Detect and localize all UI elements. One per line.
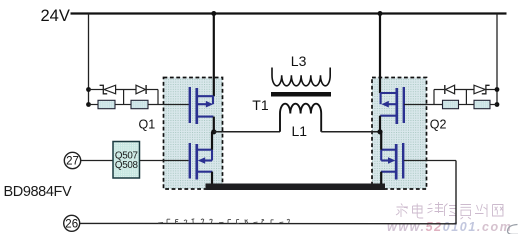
junction dot right top [495,87,500,92]
resistor right 2 [474,100,490,108]
wire Q1 drain from rail [213,14,215,97]
watermark char 4 [445,204,457,217]
wire Q1 lower drain to mid node [211,132,213,150]
wire [115,104,131,106]
wire left drop [88,14,90,105]
svg-text:L3: L3 [291,53,307,69]
wire right top branch [434,89,444,91]
junction dot rail Q1 [211,11,216,16]
transistor Q1 upper MOSFET [190,87,214,124]
diode left (cathode bar) [145,85,147,94]
svg-text:24V: 24V [41,7,70,25]
buffer Q507/Q508 box [113,142,140,179]
inductor L3 winding [272,68,330,86]
junction dot rail Q2 [378,11,383,16]
wire Q2 source to mid node [379,116,381,132]
watermark char 2 [413,204,424,219]
junction dot left bottom [86,102,91,107]
wire mid vertical [123,90,125,105]
diode left (triangle) [136,85,145,94]
transistor Q1 lower MOSFET arrow [198,157,205,164]
wire left bottom branch [89,104,99,106]
zener diode left (cathode bar) [100,85,108,94]
wire [455,89,474,91]
junction dot Q1 mid node [211,129,216,134]
svg-text:27: 27 [66,156,79,168]
wire [490,104,497,106]
resistor right 1 [443,100,459,108]
junction dot right bottom [495,102,500,107]
page curl mark [508,225,518,235]
wire right vertical [157,90,159,105]
diode right (cathode bar) [444,85,446,94]
wire pin 27 to Q507 [81,160,113,162]
wire mid node to L1 left [214,131,280,133]
transistor Q1 lower MOSFET [190,143,213,180]
svg-text:T1: T1 [252,97,269,113]
zener diode left (triangle) [104,85,115,94]
wire Q1 lower source to bus [211,172,213,184]
wire Q2 lower drain to mid node [380,132,382,150]
svg-text:L1: L1 [292,123,308,139]
wire gate Q1 top [148,104,189,106]
svg-text:26: 26 [65,218,78,230]
watermark char 7 [493,205,504,217]
svg-text:Q508: Q508 [115,160,139,171]
resistor left 1 [98,100,115,108]
Q2 dashed box [372,78,427,190]
transformer T1 core bar [271,92,331,97]
wire [146,89,158,91]
24V rail [71,12,507,14]
transistor Q2 lower MOSFET arrow [388,157,395,164]
wire right drop [496,14,498,105]
wire pin 26 to Q2 lower gate (horizontal) [80,222,456,224]
zener diode right (triangle) [474,85,485,94]
wire Q2 lower source to bus [380,172,382,184]
Q1 dashed box [164,78,223,190]
transistor Q2 upper MOSFET [380,87,404,124]
junction dot Q2 mid node [377,129,382,134]
svg-text:www.520101.com: www.520101.com [387,220,512,234]
pin 26 circle [64,215,80,231]
watermark char 3 [428,202,444,213]
watermark char 6 [475,204,487,217]
resistor left 2 [131,100,148,108]
wire Q1 source to mid node [213,117,215,132]
wire [116,89,136,91]
wire left top branch [89,89,104,91]
inductor L1 winding [280,104,321,132]
svg-text:Q2: Q2 [430,118,447,132]
annotation squiggles on pin 26 line [158,219,290,224]
wire [486,89,497,91]
wire mid vertical right [465,90,467,105]
svg-text:BD9884FV: BD9884FV [4,184,72,200]
watermark char 1 [396,204,408,218]
wire [459,104,475,106]
junction dot left top [86,87,91,92]
watermark text Chinese [396,202,503,219]
ground bus bar [206,184,386,191]
watermark char 5 [461,205,472,220]
transistor Q1 upper MOSFET arrow [206,101,213,108]
svg-text:Q1: Q1 [139,118,156,132]
zener diode right (cathode bar) [482,85,490,94]
wire Q507 to Q1 lower gate [140,160,189,162]
pin 27 circle [64,152,80,168]
wire L1 right to Q2 mid node [321,131,380,133]
diode right (triangle) [446,85,455,94]
wire Q2 drain from rail [379,14,381,94]
transistor Q2 upper MOSFET arrow [381,101,388,108]
wire Q2 top gate lead [404,104,443,106]
wire vertical to pin 26 line [455,161,457,225]
wire Q2 lower gate lead [404,160,456,162]
wire right network corner vertical [433,90,435,105]
transistor Q2 lower MOSFET [381,143,403,180]
